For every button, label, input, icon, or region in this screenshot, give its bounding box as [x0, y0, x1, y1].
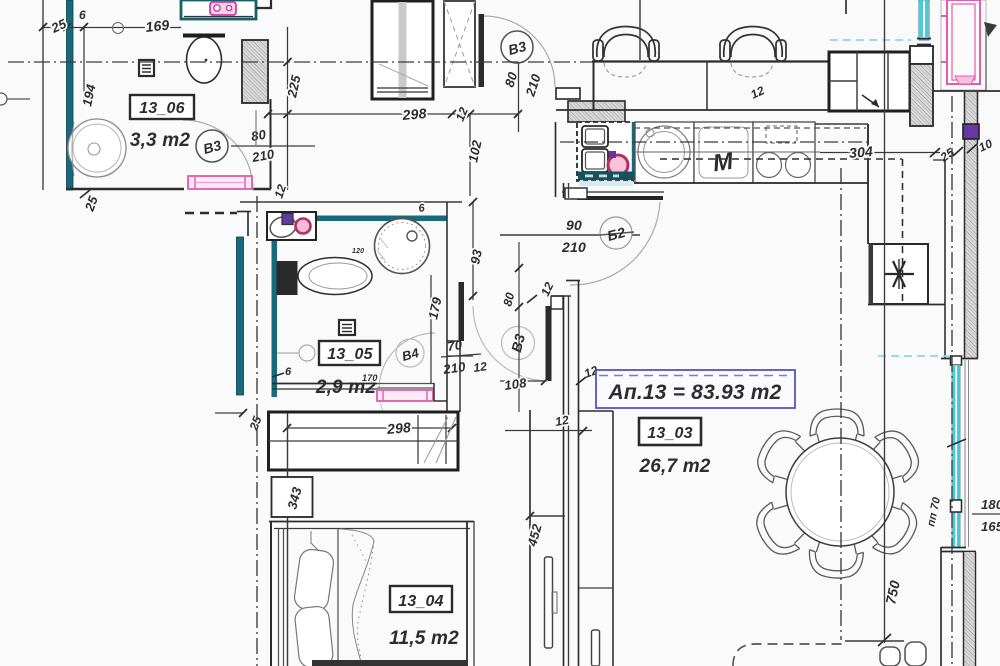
dim line x287 through bed [287, 413, 289, 666]
svg-text:11,5 m2: 11,5 m2 [389, 628, 459, 649]
svg-text:304: 304 [848, 143, 873, 161]
door swing arc B3 top [484, 16, 555, 87]
window right middle (cyan) [941, 358, 978, 360]
room label box 13_04 [390, 586, 452, 612]
svg-text:120: 120 [352, 248, 364, 255]
dim 452 [529, 410, 531, 666]
hall/living dividing walls [563, 296, 565, 666]
step box below sink cabinet [565, 188, 587, 199]
counter right part [815, 123, 868, 125]
wall below pier [270, 99, 272, 189]
door label circle B2 [600, 217, 632, 249]
dishwasher M [694, 122, 753, 183]
svg-text:108: 108 [503, 375, 528, 393]
hatched pier top right [910, 46, 933, 64]
balcony door (magenta) [941, 0, 986, 90]
dim line vertical x470 + dim 102 [469, 114, 471, 196]
toilet 13_06 seat bar [183, 34, 225, 38]
svg-text:12: 12 [554, 413, 570, 429]
svg-text:298: 298 [401, 105, 427, 123]
pink door sill B4 [377, 390, 433, 401]
343 label box [272, 477, 313, 517]
dim line 298 y114 [268, 113, 518, 115]
svg-text:210: 210 [561, 239, 586, 255]
wardrobe top (thick box) [372, 1, 433, 99]
svg-text:3,3 m2: 3,3 m2 [130, 130, 191, 151]
door label circle B3 hall [502, 327, 535, 360]
tick marks top dimension [39, 23, 47, 31]
leader circle [299, 345, 315, 361]
sliding door panels [545, 557, 553, 648]
svg-text:169: 169 [145, 17, 171, 35]
shower 13_05 [375, 219, 430, 274]
wall stub above fridge [845, 0, 847, 14]
stove unit [753, 122, 815, 183]
teal corridor wall [237, 237, 244, 395]
counter mid shelf line [634, 151, 820, 153]
wash basin 13_06 [68, 119, 126, 177]
svg-text:13_06: 13_06 [139, 100, 185, 117]
svg-text:12: 12 [472, 359, 488, 375]
door swing arc B4 [379, 333, 435, 389]
wall below flue to right wall [868, 304, 945, 306]
wall stub right of washing machine [256, 0, 271, 8]
long vertical dimension line [884, 0, 886, 643]
wall teal left of room 13_06 [67, 0, 74, 190]
toilet 13_06 bowl [187, 37, 222, 83]
dimension line top y27 [43, 27, 181, 29]
dim 108 [500, 380, 546, 382]
door leaf B3 hall [546, 306, 552, 381]
door swing arc B3 hall [473, 306, 548, 381]
axis line through kitchen counter [560, 141, 868, 143]
teal edge of sink cabinet [632, 122, 635, 180]
svg-text:6: 6 [79, 8, 86, 22]
fridge [829, 52, 910, 111]
dashed wall opening below 13_06 [185, 212, 237, 214]
door swing arc kitchen [570, 202, 660, 285]
bedroom walls [269, 521, 474, 523]
duvet [340, 529, 374, 666]
dining table [749, 409, 927, 579]
pillows [293, 548, 335, 612]
hatched pier right of 13_06 [242, 40, 268, 103]
window end / lower wall right [941, 547, 966, 549]
door label circle B3 top [501, 31, 533, 63]
dim 179 [430, 275, 432, 384]
apartment area box [596, 370, 795, 408]
axis bubble fragment left edge [0, 93, 7, 105]
boiler pink [608, 155, 628, 175]
room label box 13_03 [639, 418, 701, 445]
svg-text:Ап.13 = 83.93 m2: Ап.13 = 83.93 m2 [607, 381, 781, 404]
bar counter [592, 60, 830, 62]
bathroom bottom wall [272, 383, 377, 385]
svg-text:180: 180 [981, 497, 1000, 512]
wall line below balcony door [933, 90, 1000, 92]
kitchen left wall [555, 122, 557, 197]
svg-text:90: 90 [566, 217, 582, 233]
toilet 13_05 tank [277, 261, 298, 295]
window top right (cyan) [919, 0, 929, 40]
cyan dashed balcony line top [830, 39, 911, 41]
door leaf B3 top [479, 14, 485, 87]
vent grille 13_05 [339, 320, 355, 335]
svg-text:6: 6 [285, 366, 292, 378]
leader line x518 from door B3 [518, 62, 520, 132]
small step box left of hatch [556, 88, 580, 99]
niche step [578, 410, 613, 412]
svg-text:13_03: 13_03 [647, 425, 693, 442]
door size 90/210 kitchen [500, 234, 640, 236]
washing machine top (teal box with pink) [181, 0, 256, 19]
svg-text:13_04: 13_04 [398, 593, 444, 610]
cyan dashed line at window [878, 355, 949, 357]
teal wall left band 13_05 [272, 221, 278, 397]
right exterior wall upper (hatched) [965, 92, 978, 358]
vent grille 13_06 [139, 60, 154, 76]
bathroom 13_05 top wall [240, 201, 462, 203]
interior wall face right [944, 160, 946, 358]
purple box on wall [963, 124, 979, 139]
svg-text:13_05: 13_05 [327, 346, 373, 363]
dark wedge marker [984, 22, 997, 37]
axis dash-dot vertical right [951, 96, 953, 666]
kitchen sink cabinet [577, 122, 633, 181]
grid line left [42, 0, 44, 190]
kitchen bottom wall [562, 191, 664, 193]
wash basin unit 13_05 [267, 212, 316, 240]
door swing arc 13_06 [183, 120, 253, 190]
svg-text:165: 165 [981, 519, 1000, 534]
dim 93 [472, 202, 474, 300]
door label circle B3 [196, 130, 228, 162]
dim line vertical x287 [287, 27, 289, 190]
pink door sill 13_06 [188, 176, 252, 189]
door hinge circle on dim line [113, 23, 124, 34]
door label circle B4 [396, 339, 424, 367]
toilet 13_05 bowl [298, 258, 372, 295]
teal wall top band 13_05 [276, 216, 447, 222]
svg-text:298: 298 [385, 419, 411, 437]
right jamb and wall bits [433, 383, 435, 401]
flue box with star [870, 244, 928, 304]
corner step hall [247, 211, 249, 236]
hatched wall segment above kitchen [568, 101, 625, 122]
bed headboard [278, 529, 280, 666]
dashed cabinet lines [634, 127, 866, 129]
dim 304 [820, 152, 940, 154]
svg-text:170: 170 [362, 373, 378, 383]
bed edge [337, 529, 339, 666]
axis dash-dot vertical table [840, 168, 842, 640]
axis dash-dot horizontal [8, 61, 592, 63]
axis dash-dot vertical left [256, 196, 258, 666]
bottom wall 13_06 [66, 188, 184, 191]
bar stool 2 [720, 27, 786, 62]
room label box 13_05 [319, 341, 380, 365]
svg-text:26,7 m2: 26,7 m2 [638, 456, 710, 477]
room label box 13_06 [130, 95, 194, 119]
bar stool 1 [593, 27, 659, 62]
hall wardrobe (thick box) [269, 412, 459, 470]
washing machine kitchen [635, 122, 694, 183]
sofa dashed outline [733, 644, 843, 666]
wall grid line above counter [639, 0, 641, 60]
bedroom bottom wall stub [312, 660, 468, 666]
shaft with X brace [444, 1, 475, 87]
